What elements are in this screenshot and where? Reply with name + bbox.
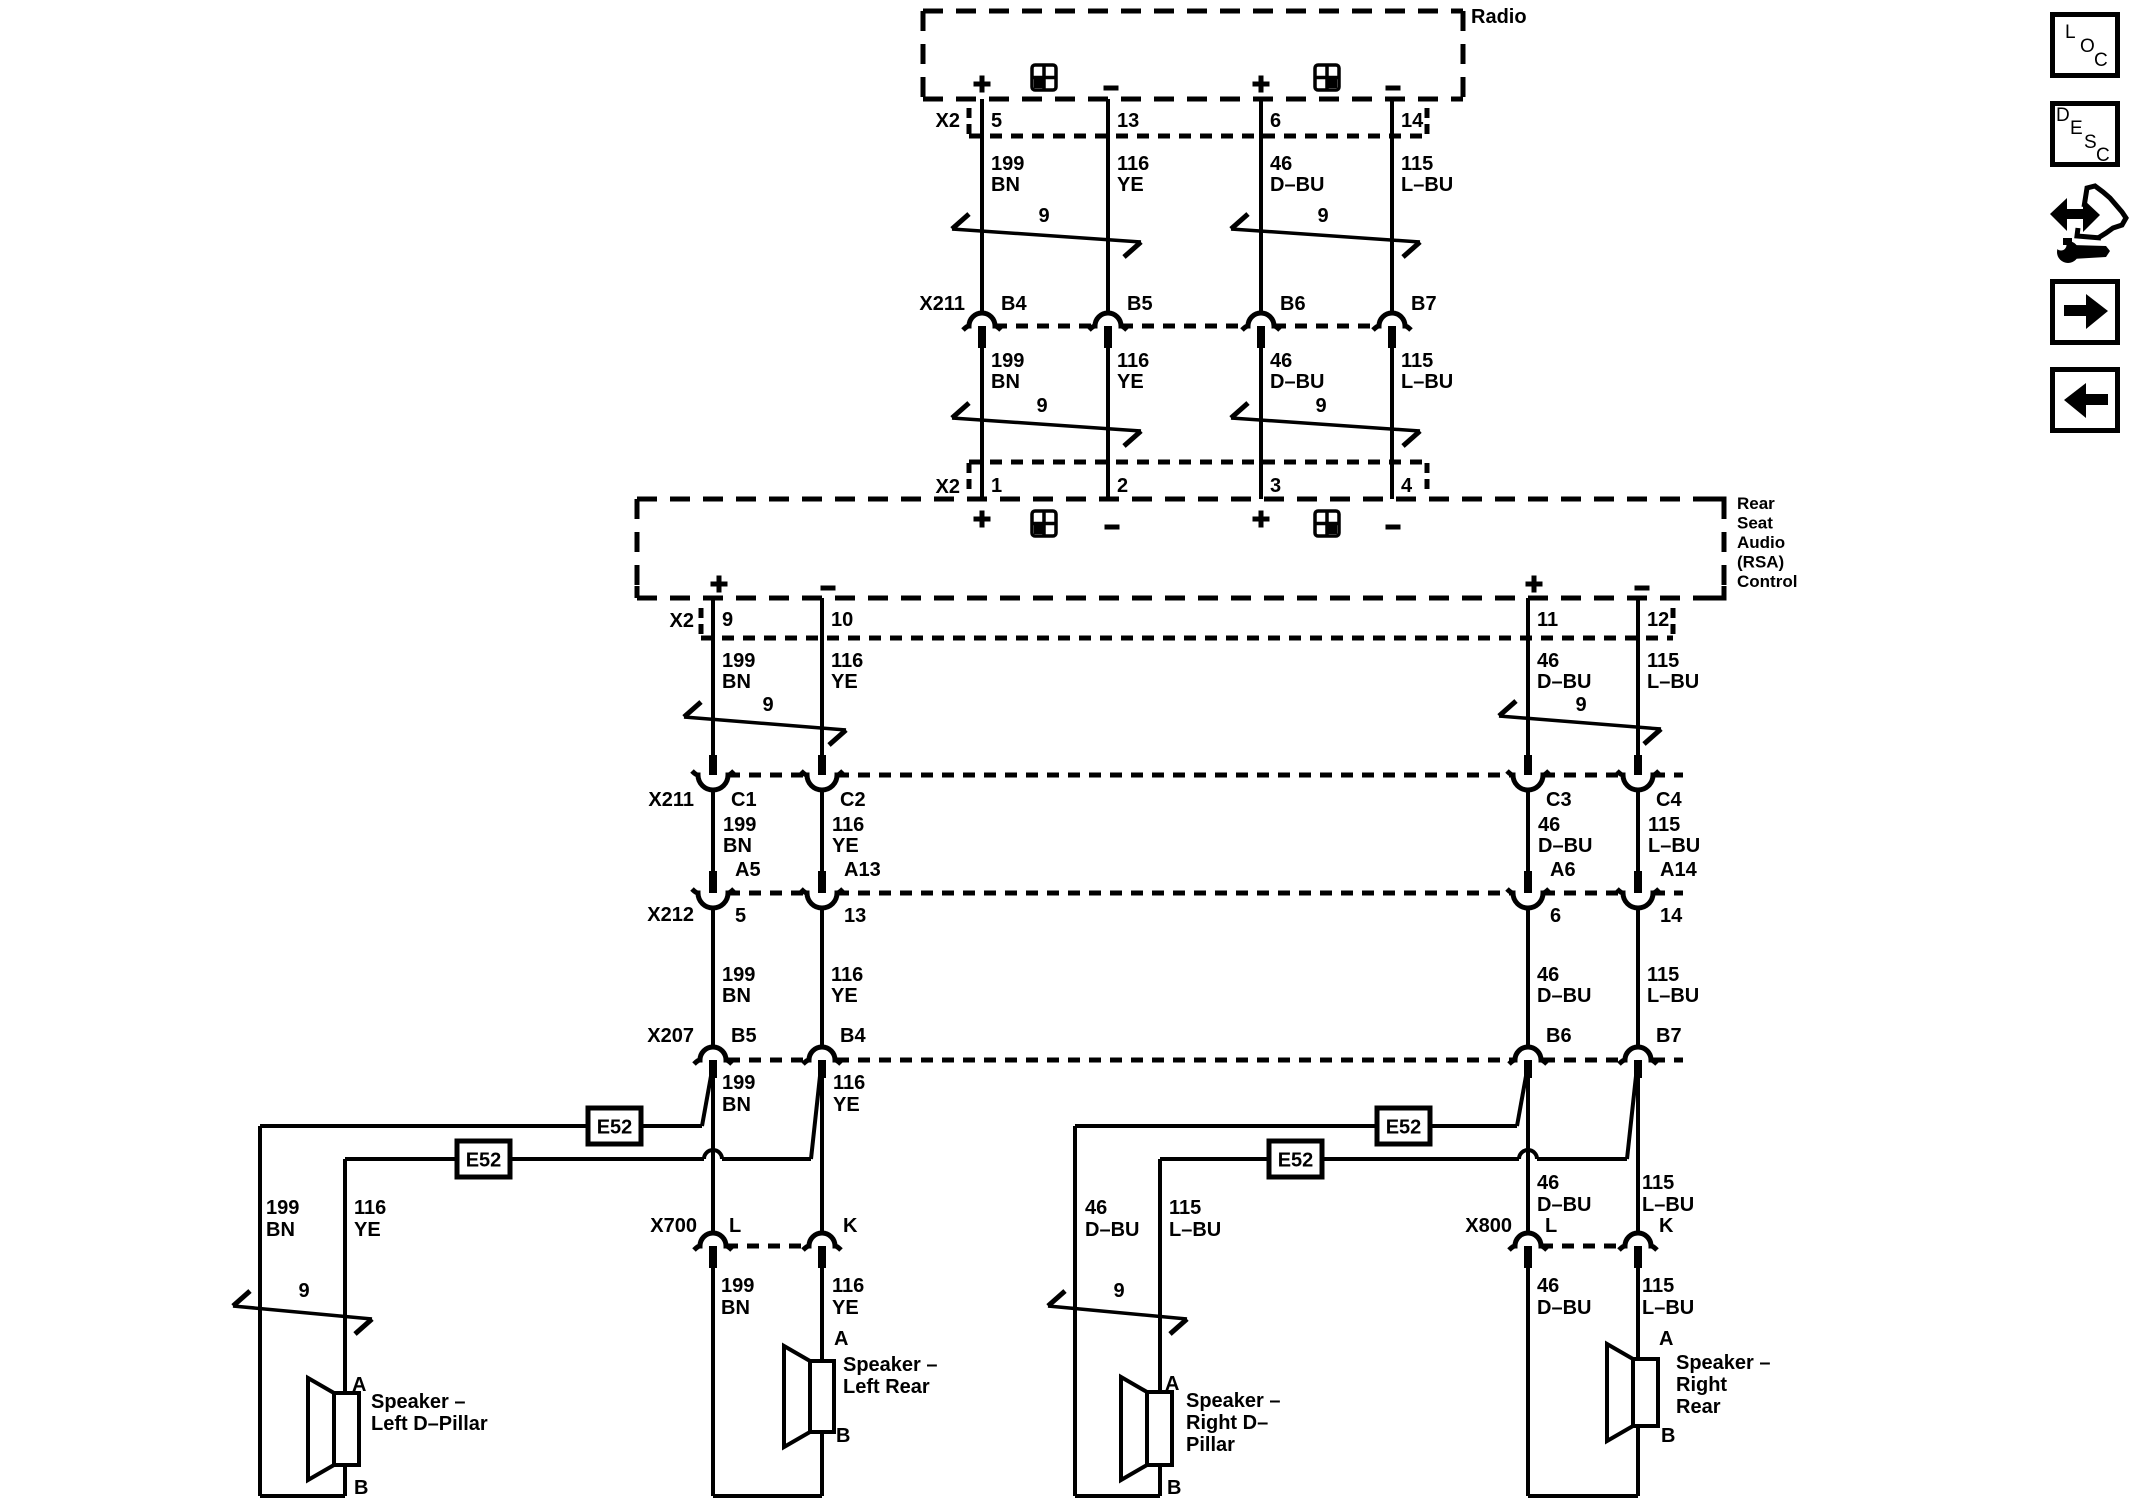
harness crossing 9 (RSA right pair)	[1499, 694, 1661, 744]
svg-text:BN: BN	[266, 1219, 295, 1241]
RSA pin 11 polarity +	[1526, 576, 1543, 593]
X207 pin B7	[1619, 1025, 1682, 1078]
svg-text:2: 2	[1117, 475, 1128, 497]
connector X700	[650, 1215, 809, 1246]
wire 199 BN X700-L to left rear speaker B	[713, 1268, 822, 1496]
svg-text:5: 5	[991, 110, 1002, 132]
svg-text:1: 1	[991, 475, 1002, 497]
svg-text:6: 6	[1550, 905, 1561, 927]
svg-text:199: 199	[991, 153, 1024, 175]
svg-text:Control: Control	[1737, 572, 1797, 591]
wire label 199 BN	[722, 650, 755, 693]
RSA pin 12 polarity -	[1635, 586, 1650, 591]
svg-text:YE: YE	[1117, 371, 1144, 393]
wire label 115 L–BU	[1647, 964, 1699, 1007]
X212 pin 5	[692, 871, 746, 927]
svg-text:YE: YE	[833, 1094, 860, 1116]
wire 46 D-BU radio pin 6 to X211	[1259, 99, 1263, 313]
svg-text:E52: E52	[597, 1117, 633, 1139]
svg-text:199: 199	[722, 964, 755, 986]
svg-text:Speaker –: Speaker –	[1186, 1390, 1281, 1412]
wire 46 D-BU to right D-pillar speaker B	[1073, 1126, 1077, 1496]
harness crossing 9 (radio left pair)	[952, 205, 1141, 257]
svg-text:115: 115	[1642, 1275, 1674, 1297]
svg-text:C2: C2	[840, 789, 866, 811]
svg-text:116: 116	[832, 814, 864, 836]
svg-text:BN: BN	[991, 371, 1020, 393]
X207 pin B4	[803, 1025, 866, 1078]
svg-text:YE: YE	[832, 1297, 859, 1319]
X211 pin C2	[801, 755, 866, 811]
svg-text:L–BU: L–BU	[1401, 174, 1453, 196]
svg-text:L–BU: L–BU	[1401, 371, 1453, 393]
wire tap 46 D-BU to E52	[1517, 1076, 1526, 1126]
svg-text:Speaker –: Speaker –	[843, 1354, 938, 1376]
X211 pin B5	[1089, 293, 1153, 348]
svg-text:B6: B6	[1546, 1025, 1572, 1047]
svg-text:46: 46	[1537, 1172, 1559, 1194]
connector X207	[647, 1025, 1683, 1060]
wire label 199 BN	[723, 814, 756, 857]
svg-text:Seat: Seat	[1737, 514, 1773, 533]
svg-text:9: 9	[1038, 205, 1049, 227]
svg-text:116: 116	[831, 650, 863, 672]
svg-text:E52: E52	[466, 1150, 502, 1172]
svg-text:115: 115	[1401, 350, 1433, 372]
radio pin 13 polarity -	[1104, 86, 1119, 91]
wire 116 YE X207 to X700/X800	[820, 1078, 824, 1233]
svg-text:116: 116	[1117, 350, 1149, 372]
wire label 199 BN	[722, 964, 755, 1007]
svg-text:A14: A14	[1660, 859, 1698, 881]
connector X2 (RSA bottom)	[670, 608, 1673, 638]
wire label 199 BN (D-pillar)	[266, 1197, 299, 1241]
svg-text:E52: E52	[1386, 1117, 1422, 1139]
svg-text:BN: BN	[722, 1094, 751, 1116]
wire label 115 L-BU (below X800)	[1642, 1275, 1694, 1319]
radio (component box)	[923, 11, 1463, 99]
speaker - left D-pillar	[308, 1374, 488, 1499]
X212 pin 13	[801, 871, 866, 927]
X212 pin 6	[1507, 871, 1561, 927]
wire label 199 BN (below X700)	[721, 1275, 754, 1319]
wire X211 to X212	[711, 789, 715, 871]
svg-text:D: D	[2056, 105, 2070, 126]
wire label 116 YE	[832, 814, 864, 857]
svg-text:115: 115	[1169, 1197, 1201, 1219]
wire X212 to X207	[1526, 907, 1530, 1047]
wire 115 L-BU RSA pin 12 to X211	[1636, 598, 1640, 755]
svg-text:6: 6	[1270, 110, 1281, 132]
svg-text:116: 116	[832, 1275, 864, 1297]
wire 46 D-BU X800-L to right rear speaker B	[1528, 1268, 1638, 1496]
svg-text:A5: A5	[735, 859, 761, 881]
RSA pin 2 polarity -	[1105, 525, 1120, 530]
X211 pin C1	[692, 755, 757, 811]
svg-text:C4: C4	[1656, 789, 1682, 811]
wire label 116 YE	[831, 650, 863, 693]
RSA pin 3 polarity +	[1253, 511, 1270, 528]
svg-text:9: 9	[1113, 1280, 1124, 1302]
wire X211 to X212	[820, 789, 824, 871]
radio right channel icon	[1315, 65, 1339, 90]
svg-text:D–BU: D–BU	[1538, 835, 1592, 857]
RSA pin 9 polarity +	[711, 576, 728, 593]
wire 115 L-BU X800-K to right rear speaker A	[1636, 1268, 1640, 1359]
wire right D-pillar bottom run	[1075, 1465, 1160, 1496]
radio pin 5 polarity +	[974, 76, 991, 93]
svg-text:9: 9	[1317, 205, 1328, 227]
harness crossing 9 (mid left pair)	[952, 395, 1141, 446]
X211 pin C3	[1507, 755, 1572, 811]
wire label 115 L-BU (D-pillar)	[1169, 1197, 1221, 1241]
wire label 46 D–BU	[1270, 350, 1324, 393]
svg-text:9: 9	[762, 694, 773, 716]
wire label 46 D-BU (below X800)	[1537, 1275, 1591, 1319]
X800 pin L	[1509, 1215, 1557, 1268]
svg-text:115: 115	[1642, 1172, 1674, 1194]
svg-text:Speaker –: Speaker –	[371, 1391, 466, 1413]
inline connector E52 (116 YE)	[457, 1141, 510, 1177]
svg-text:46: 46	[1270, 153, 1292, 175]
svg-text:B5: B5	[731, 1025, 757, 1047]
svg-text:9: 9	[1036, 395, 1047, 417]
svg-text:14: 14	[1660, 905, 1683, 927]
radio left channel icon	[1032, 65, 1056, 90]
wire X212 to X207	[1636, 907, 1640, 1047]
svg-text:9: 9	[1315, 395, 1326, 417]
harness crossing 9 (right D-pillar)	[1048, 1280, 1187, 1334]
speaker - left rear	[784, 1328, 938, 1447]
DESC navigation icon	[2053, 104, 2118, 167]
svg-text:X2: X2	[936, 476, 960, 498]
svg-text:199: 199	[722, 1072, 755, 1094]
svg-text:A: A	[1165, 1373, 1179, 1395]
svg-text:L–BU: L–BU	[1647, 985, 1699, 1007]
RSA right input icon	[1315, 511, 1339, 536]
wire label 115 L–BU	[1648, 814, 1700, 857]
svg-text:Rear: Rear	[1676, 1396, 1721, 1418]
harness crossing 9 (left D-pillar)	[233, 1280, 372, 1334]
X211 pin C4	[1617, 755, 1682, 811]
svg-text:Right: Right	[1676, 1374, 1727, 1396]
X700 pin K	[803, 1215, 858, 1268]
RSA pin 4 polarity -	[1386, 525, 1401, 530]
wire label 115 L–BU	[1401, 153, 1453, 196]
svg-text:5: 5	[735, 905, 746, 927]
svg-text:L: L	[1545, 1215, 1557, 1237]
svg-text:Rear: Rear	[1737, 494, 1775, 513]
wire 115 L-BU to right D-pillar speaker A	[1158, 1159, 1162, 1392]
wire 115 L-BU radio pin 14 to X211	[1390, 99, 1394, 313]
svg-text:115: 115	[1401, 153, 1433, 175]
svg-text:C1: C1	[731, 789, 757, 811]
wire 199 BN RSA pin 9 to X211	[711, 598, 715, 755]
speaker - right rear	[1607, 1328, 1771, 1447]
svg-text:BN: BN	[722, 671, 751, 693]
wire label 46 D–BU	[1538, 814, 1592, 857]
harness crossing 9 (RSA left pair)	[684, 694, 846, 745]
svg-text:115: 115	[1647, 964, 1679, 986]
wire 116 YE X700-K to left rear speaker A	[820, 1268, 824, 1361]
RSA control label	[1737, 494, 1797, 591]
harness crossing 9 (radio right pair)	[1231, 205, 1420, 257]
diagnostic wrench icon	[2050, 186, 2126, 263]
wire 46 D-BU X207 to X700/X800	[1526, 1078, 1530, 1233]
svg-text:B6: B6	[1280, 293, 1306, 315]
wire label 46 D–BU	[1537, 964, 1591, 1007]
svg-text:D–BU: D–BU	[1537, 1297, 1591, 1319]
svg-text:B4: B4	[840, 1025, 866, 1047]
svg-text:B7: B7	[1411, 293, 1437, 315]
wire X211 to X212	[1636, 789, 1640, 871]
inline connector E52 (115 L-BU)	[1269, 1141, 1322, 1177]
svg-text:L–BU: L–BU	[1648, 835, 1700, 857]
svg-text:46: 46	[1538, 814, 1560, 836]
X211 pin B7	[1373, 293, 1437, 348]
svg-text:4: 4	[1401, 475, 1413, 497]
wire label 116 YE	[833, 1072, 865, 1116]
wire left D-pillar bottom run	[260, 1465, 345, 1496]
svg-text:YE: YE	[832, 835, 859, 857]
svg-text:X212: X212	[647, 904, 694, 926]
svg-text:X211: X211	[919, 293, 965, 315]
wire 116 YE radio pin 13 to X211	[1106, 99, 1110, 313]
svg-text:B: B	[1661, 1425, 1675, 1447]
wire 116 YE tap run	[345, 1150, 811, 1159]
svg-text:B: B	[354, 1477, 368, 1499]
svg-text:9: 9	[1575, 694, 1586, 716]
wire label 116 YE	[1117, 350, 1149, 393]
svg-text:L: L	[729, 1215, 741, 1237]
RSA pin 10 polarity -	[821, 586, 836, 591]
back navigation icon	[2053, 370, 2118, 431]
svg-text:S: S	[2084, 132, 2097, 153]
svg-text:9: 9	[298, 1280, 309, 1302]
X212 pin 14	[1617, 871, 1683, 927]
svg-text:O: O	[2080, 36, 2095, 57]
wire 46 D-BU tap run	[1075, 1124, 1517, 1128]
wire 116 YE radio pin 13 X211 to X2	[1106, 348, 1110, 499]
svg-text:BN: BN	[722, 985, 751, 1007]
wire label 116 YE (D-pillar)	[354, 1197, 386, 1241]
svg-text:13: 13	[844, 905, 866, 927]
svg-text:YE: YE	[1117, 174, 1144, 196]
wire X211 to X212	[1526, 789, 1530, 871]
svg-text:10: 10	[831, 609, 853, 631]
svg-text:L–BU: L–BU	[1642, 1194, 1694, 1216]
svg-text:(RSA): (RSA)	[1737, 553, 1784, 572]
wire label 199 BN	[991, 153, 1024, 196]
wire label 115 L-BU	[1642, 1172, 1694, 1216]
wire 46 D-BU radio pin 6 X211 to X2	[1259, 348, 1263, 499]
svg-text:X207: X207	[647, 1025, 694, 1047]
wire label 115 L–BU	[1647, 650, 1699, 693]
svg-text:YE: YE	[354, 1219, 381, 1241]
svg-text:C: C	[2096, 145, 2110, 166]
X211 pin B6	[1242, 293, 1306, 348]
svg-text:Right D–: Right D–	[1186, 1412, 1268, 1434]
wire label 116 YE (below X700)	[832, 1275, 864, 1319]
svg-text:X800: X800	[1465, 1215, 1512, 1237]
wire X212 to X207	[711, 907, 715, 1047]
svg-text:12: 12	[1647, 609, 1669, 631]
svg-text:X700: X700	[650, 1215, 697, 1237]
svg-text:Pillar: Pillar	[1186, 1434, 1235, 1456]
wire X212 to X207	[820, 907, 824, 1047]
forward navigation icon	[2053, 282, 2118, 343]
X207 pin B6	[1509, 1025, 1572, 1078]
wire tap 116 YE to E52	[811, 1076, 820, 1159]
svg-text:A: A	[352, 1374, 366, 1396]
connector X212	[647, 893, 1683, 926]
svg-text:BN: BN	[721, 1297, 750, 1319]
speaker - right D-pillar	[1121, 1373, 1281, 1499]
svg-text:E: E	[2070, 118, 2083, 139]
svg-text:Left D–Pillar: Left D–Pillar	[371, 1413, 488, 1435]
svg-text:A13: A13	[844, 859, 881, 881]
svg-text:14: 14	[1401, 110, 1424, 132]
RSA left input icon	[1032, 511, 1056, 536]
svg-text:115: 115	[1648, 814, 1680, 836]
svg-text:B: B	[1167, 1477, 1181, 1499]
svg-text:199: 199	[722, 650, 755, 672]
wire 116 YE to left D-pillar speaker A	[343, 1159, 347, 1393]
svg-text:116: 116	[831, 964, 863, 986]
wire 199 BN radio pin 5 X211 to X2	[980, 348, 984, 499]
svg-text:BN: BN	[991, 174, 1020, 196]
svg-text:Left Rear: Left Rear	[843, 1376, 930, 1398]
svg-text:L–BU: L–BU	[1647, 671, 1699, 693]
LOC navigation icon	[2053, 15, 2118, 76]
svg-text:199: 199	[991, 350, 1024, 372]
wire label 199 BN	[722, 1072, 755, 1116]
svg-text:L: L	[2065, 22, 2076, 43]
radio pin 14 polarity -	[1386, 86, 1401, 91]
wire label 46 D–BU	[1537, 650, 1591, 693]
svg-text:BN: BN	[723, 835, 752, 857]
svg-text:46: 46	[1537, 650, 1559, 672]
svg-text:13: 13	[1117, 110, 1139, 132]
svg-text:116: 116	[354, 1197, 386, 1219]
inline connector E52 (199 BN)	[588, 1108, 641, 1144]
wire 116 YE RSA pin 10 to X211	[820, 598, 824, 755]
svg-text:C3: C3	[1546, 789, 1572, 811]
wire tap 115 L-BU to E52	[1627, 1076, 1636, 1159]
wire 46 D-BU RSA pin 11 to X211	[1526, 598, 1530, 755]
svg-text:11: 11	[1537, 609, 1558, 631]
wire label 115 L–BU	[1401, 350, 1453, 393]
wire 115 L-BU tap run	[1160, 1150, 1627, 1159]
svg-text:Radio: Radio	[1471, 6, 1527, 28]
wire 199 BN radio pin 5 to X211	[980, 99, 984, 313]
svg-text:L–BU: L–BU	[1642, 1297, 1694, 1319]
connector X211 (radio side)	[919, 293, 1379, 326]
svg-text:B4: B4	[1001, 293, 1027, 315]
connector X800	[1465, 1215, 1625, 1246]
svg-text:B5: B5	[1127, 293, 1153, 315]
svg-text:YE: YE	[831, 985, 858, 1007]
svg-text:D–BU: D–BU	[1270, 371, 1324, 393]
svg-text:46: 46	[1085, 1197, 1107, 1219]
svg-text:46: 46	[1537, 1275, 1559, 1297]
svg-text:E52: E52	[1278, 1150, 1314, 1172]
svg-text:116: 116	[1117, 153, 1149, 175]
svg-text:D–BU: D–BU	[1537, 671, 1591, 693]
radio pin 6 polarity +	[1253, 76, 1270, 93]
svg-text:9: 9	[722, 609, 733, 631]
connector X211 (RSA side)	[648, 775, 1683, 811]
svg-text:46: 46	[1537, 964, 1559, 986]
svg-text:D–BU: D–BU	[1085, 1219, 1139, 1241]
connector X2 (radio)	[936, 108, 1427, 136]
svg-text:K: K	[843, 1215, 858, 1237]
svg-text:Speaker –: Speaker –	[1676, 1352, 1771, 1374]
svg-text:L–BU: L–BU	[1169, 1219, 1221, 1241]
svg-text:X2: X2	[670, 610, 694, 632]
svg-text:YE: YE	[831, 671, 858, 693]
wire 199 BN to left D-pillar speaker B	[258, 1126, 262, 1496]
wire label 46 D-BU	[1537, 1172, 1591, 1216]
X800 pin K	[1619, 1215, 1674, 1268]
svg-text:D–BU: D–BU	[1537, 985, 1591, 1007]
inline connector E52 (46 D-BU)	[1377, 1108, 1430, 1144]
svg-text:D–BU: D–BU	[1270, 174, 1324, 196]
svg-text:C: C	[2094, 50, 2108, 71]
wire 115 L-BU radio pin 14 X211 to X2	[1390, 348, 1394, 499]
svg-text:D–BU: D–BU	[1537, 1194, 1591, 1216]
wire label 46 D-BU (D-pillar)	[1085, 1197, 1139, 1241]
harness crossing 9 (mid right pair)	[1231, 395, 1420, 446]
RSA pin 1 polarity +	[974, 511, 991, 528]
svg-text:116: 116	[833, 1072, 865, 1094]
svg-text:Audio: Audio	[1737, 533, 1785, 552]
svg-text:115: 115	[1647, 650, 1679, 672]
svg-text:X211: X211	[648, 789, 694, 811]
svg-text:199: 199	[266, 1197, 299, 1219]
svg-text:K: K	[1659, 1215, 1674, 1237]
wire label 199 BN	[991, 350, 1024, 393]
svg-text:B7: B7	[1656, 1025, 1682, 1047]
svg-text:46: 46	[1270, 350, 1292, 372]
svg-text:B: B	[836, 1425, 850, 1447]
svg-text:199: 199	[721, 1275, 754, 1297]
wire label 116 YE	[831, 964, 863, 1007]
wire label 46 D–BU	[1270, 153, 1324, 196]
svg-text:199: 199	[723, 814, 756, 836]
connector X2 (RSA top)	[936, 462, 1427, 498]
wire 199 BN tap run	[260, 1124, 702, 1128]
X700 pin L	[694, 1215, 741, 1268]
wire 115 L-BU X207 to X700/X800	[1636, 1078, 1640, 1233]
rear seat audio (RSA) control (component box)	[637, 499, 1727, 598]
wire label 116 YE	[1117, 153, 1149, 196]
svg-text:3: 3	[1270, 475, 1281, 497]
svg-text:A: A	[1659, 1328, 1673, 1350]
X211 pin B4	[963, 293, 1027, 348]
X207 pin B5	[694, 1025, 757, 1078]
svg-text:A: A	[834, 1328, 848, 1350]
wire 199 BN X207 to X700/X800	[711, 1078, 715, 1233]
wire tap 199 BN to E52	[702, 1076, 711, 1126]
svg-text:X2: X2	[936, 110, 960, 132]
svg-text:A6: A6	[1550, 859, 1576, 881]
